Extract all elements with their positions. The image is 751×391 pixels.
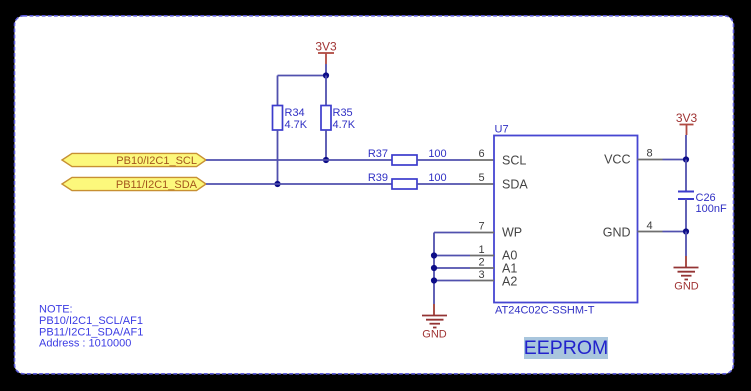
svg-text:R37: R37 bbox=[368, 148, 388, 160]
wire R35 down to SCL net bbox=[325, 130, 327, 160]
svg-text:WP: WP bbox=[502, 226, 522, 240]
power 3V3 (right) bbox=[676, 111, 698, 135]
svg-text:AT24C02C-SSHM-T: AT24C02C-SSHM-T bbox=[495, 305, 595, 317]
junction VCC node bbox=[683, 156, 689, 162]
wire A2 to ground bus bbox=[434, 280, 470, 282]
svg-text:1: 1 bbox=[478, 244, 484, 256]
svg-text:SCL: SCL bbox=[502, 154, 526, 168]
svg-text:SDA: SDA bbox=[502, 178, 528, 192]
svg-text:R39: R39 bbox=[368, 172, 388, 184]
wire R37 to pin 6 bbox=[417, 159, 470, 161]
pin 3 A2 of U7 bbox=[470, 269, 494, 281]
op IC U7 AT24C02C-SSHM-T body bbox=[494, 124, 638, 317]
wire pin4 to GND node bbox=[663, 231, 687, 233]
junction R34 / SDA bbox=[274, 181, 280, 187]
svg-text:U7: U7 bbox=[495, 124, 509, 136]
svg-text:GND: GND bbox=[674, 281, 699, 293]
pin 8 VCC of U7 bbox=[638, 148, 663, 160]
svg-text:4.7K: 4.7K bbox=[333, 119, 356, 131]
net label PB10/I2C1_SCL bbox=[62, 153, 206, 167]
wire 3V3 stem to rail bbox=[325, 64, 327, 76]
svg-text:A2: A2 bbox=[502, 274, 517, 288]
svg-text:100: 100 bbox=[428, 172, 446, 184]
ground GND (right) bbox=[674, 256, 699, 293]
svg-text:5: 5 bbox=[478, 172, 484, 184]
wire ground bus vertical bbox=[433, 233, 435, 305]
svg-text:4: 4 bbox=[646, 220, 652, 232]
svg-text:A0: A0 bbox=[502, 249, 517, 263]
wire WP to ground bus bbox=[434, 232, 470, 234]
resistor R37 100 bbox=[368, 148, 447, 165]
wire C26 to GND node bbox=[685, 199, 687, 232]
ground GND (left, address pins) bbox=[422, 304, 447, 341]
svg-text:8: 8 bbox=[646, 148, 652, 160]
svg-text:NOTE:: NOTE: bbox=[39, 304, 73, 316]
svg-text:3: 3 bbox=[478, 269, 484, 281]
wire A0 to ground bus bbox=[434, 255, 470, 257]
svg-text:R34: R34 bbox=[285, 107, 305, 119]
svg-text:PB10/I2C1_SCL: PB10/I2C1_SCL bbox=[116, 155, 197, 167]
pin 5 SDA of U7 bbox=[470, 172, 494, 184]
svg-text:PB10/I2C1_SCL/AF1: PB10/I2C1_SCL/AF1 bbox=[39, 315, 143, 327]
svg-text:EEPROM: EEPROM bbox=[524, 337, 609, 359]
junction GND node bbox=[683, 228, 689, 234]
resistor R34 4.7K bbox=[273, 106, 308, 132]
wire GND node down bbox=[685, 232, 687, 257]
svg-text:100nF: 100nF bbox=[696, 203, 727, 215]
svg-text:R35: R35 bbox=[333, 107, 353, 119]
svg-text:GND: GND bbox=[603, 226, 631, 240]
svg-text:4.7K: 4.7K bbox=[285, 119, 308, 131]
junction R35 / SCL bbox=[323, 157, 329, 163]
svg-text:7: 7 bbox=[478, 221, 484, 233]
svg-text:3V3: 3V3 bbox=[315, 40, 337, 54]
wire rail down to R35 bbox=[325, 76, 327, 106]
pin 7 WP of U7 bbox=[470, 221, 494, 233]
svg-text:VCC: VCC bbox=[604, 153, 630, 167]
junction A1 bbox=[431, 265, 437, 271]
junction A2 bbox=[431, 277, 437, 283]
resistor R39 100 bbox=[368, 172, 447, 189]
wire pin8 to VCC node bbox=[663, 159, 687, 161]
pin 2 A1 of U7 bbox=[470, 257, 494, 269]
wire VCC node to C26 bbox=[685, 160, 687, 192]
svg-text:6: 6 bbox=[478, 148, 484, 160]
svg-text:3V3: 3V3 bbox=[676, 111, 698, 125]
wire A1 to ground bus bbox=[434, 267, 470, 269]
svg-text:PB11/I2C1_SDA/AF1: PB11/I2C1_SDA/AF1 bbox=[39, 326, 143, 338]
wire R39 to pin 5 bbox=[417, 183, 470, 185]
title label EEPROM bbox=[524, 337, 609, 359]
svg-text:Address : 1010000: Address : 1010000 bbox=[39, 338, 131, 350]
junction at 3V3 rail bbox=[323, 72, 329, 78]
svg-text:100: 100 bbox=[428, 148, 446, 160]
svg-text:2: 2 bbox=[478, 257, 484, 269]
power 3V3 (left, above pull-up resistors) bbox=[315, 40, 337, 65]
pin 4 GND of U7 bbox=[638, 220, 663, 232]
capacitor C26 100nF bbox=[678, 192, 727, 216]
resistor R35 4.7K bbox=[321, 106, 356, 132]
pin 6 SCL of U7 bbox=[470, 148, 494, 160]
pin 1 A0 of U7 bbox=[470, 244, 494, 256]
note text block bbox=[39, 304, 143, 350]
svg-text:PB11/I2C1_SDA: PB11/I2C1_SDA bbox=[116, 179, 198, 191]
wire R34 down to SDA net bbox=[277, 130, 279, 184]
wire SCL net to R37 bbox=[206, 159, 392, 161]
wire top rail bbox=[278, 75, 327, 77]
wire SDA net to R39 bbox=[206, 183, 392, 185]
wire rail down to R34 bbox=[277, 76, 279, 106]
net label PB11/I2C1_SDA bbox=[62, 177, 206, 191]
junction A0 bbox=[431, 252, 437, 258]
svg-text:GND: GND bbox=[422, 329, 447, 341]
wire 3V3 to VCC node bbox=[685, 135, 687, 160]
